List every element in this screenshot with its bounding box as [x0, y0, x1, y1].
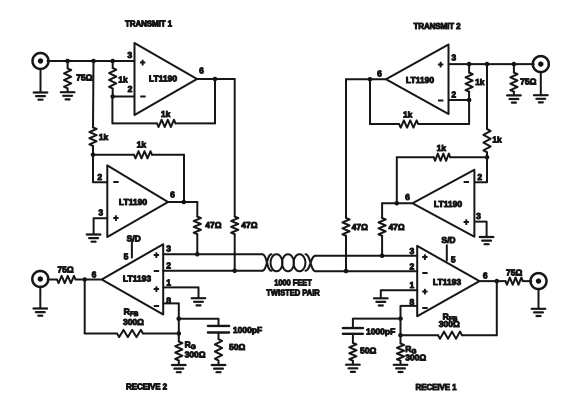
svg-text:47Ω: 47Ω	[241, 220, 257, 230]
wire (U3 feedback down)	[84, 280, 86, 334]
wire (U3 pin8 down)	[163, 303, 179, 333]
svg-text:300Ω: 300Ω	[185, 350, 206, 360]
wire (pin2 node to U4 -in)	[449, 99, 470, 101]
label LT1193 (U3)	[123, 274, 151, 284]
node dot (line B right tap)	[344, 269, 349, 274]
label LT1193 (U6)	[433, 277, 461, 287]
wire (U4 feedback down)	[369, 79, 371, 124]
node dot (U2 output)	[182, 200, 187, 205]
svg-text:1k: 1k	[99, 132, 109, 142]
ground (J4 shell)	[532, 289, 546, 316]
svg-text:50Ω: 50Ω	[360, 346, 376, 356]
minus sign (U3 pin8)	[154, 301, 159, 311]
ground (RG U6)	[394, 365, 408, 372]
op-amp U3 LT1193 (RECEIVE 2)	[102, 244, 164, 314]
svg-text:300Ω: 300Ω	[123, 317, 144, 327]
svg-text:1000 FEET: 1000 FEET	[274, 278, 312, 287]
wire (U3 output)	[85, 279, 102, 281]
label 1k (coupling right)	[492, 135, 502, 145]
svg-text:1: 1	[166, 277, 171, 287]
svg-text:1k: 1k	[161, 109, 171, 119]
resistor 1k (U4 +in to -in)	[466, 64, 473, 100]
minus sign (U4 -in)	[438, 95, 443, 105]
svg-text:1k: 1k	[475, 77, 485, 87]
node dot (U4 output)	[368, 77, 373, 82]
wire (feedback up to U4 pin2 node)	[468, 100, 470, 124]
svg-text:2: 2	[97, 172, 102, 182]
svg-text:2: 2	[451, 89, 456, 99]
wire (pin2 node down to U2 -in)	[93, 155, 107, 183]
label 1k (R3)	[161, 109, 171, 119]
twisted pair loop 1	[271, 254, 283, 271]
svg-text:TRANSMIT 1: TRANSMIT 1	[125, 19, 173, 28]
pin 1 label (U6)	[410, 280, 415, 290]
node dot (U1 pin 2 node)	[110, 94, 115, 99]
pin 6 label (U2)	[170, 190, 175, 200]
label 47Ω (RA)	[205, 220, 221, 230]
plus sign (U2 +in)	[113, 213, 118, 223]
label RFB (U3)	[124, 306, 139, 318]
node dot (1k R2b top)	[467, 62, 472, 67]
svg-text:5: 5	[124, 252, 129, 262]
svg-text:+: +	[422, 286, 427, 296]
svg-text:−: −	[422, 268, 427, 278]
wire (1000pF node to cap)	[179, 319, 219, 326]
node dot (1000pF node)	[177, 317, 182, 322]
ground (J1 shell)	[34, 69, 48, 100]
op-amp U4 LT1190 (TRANSMIT 2)	[386, 45, 449, 115]
label 300Ω (RFB U3)	[123, 317, 144, 327]
wire (U6 feedback down)	[496, 281, 498, 335]
pin 2 label (U1)	[128, 84, 133, 94]
label 1k (TX2 input)	[475, 77, 485, 87]
resistor RG 300Ω (U3 gain set)	[175, 334, 182, 365]
wire (line A left segment, U3 pin3)	[163, 253, 262, 255]
svg-text:RECEIVE 1: RECEIVE 1	[416, 383, 458, 392]
svg-text:3: 3	[166, 244, 171, 254]
svg-text:+: +	[464, 217, 469, 227]
wire (pin2 node down to U5 -in)	[474, 157, 487, 182]
BNC connector J4 (receive 1 output)	[531, 273, 547, 289]
wire (U6 pin1 to ground)	[381, 290, 417, 298]
twisted pair loop 2	[282, 254, 294, 271]
svg-text:1k: 1k	[137, 140, 147, 150]
resistor RFB 300Ω (U6 feedback)	[401, 332, 497, 339]
node dot (U5 -in node)	[485, 155, 490, 160]
label 75Ω (TX2)	[520, 76, 536, 86]
svg-text:2: 2	[128, 84, 133, 94]
svg-text:47Ω: 47Ω	[388, 222, 404, 232]
node dot (line A left tap)	[232, 269, 237, 274]
svg-text:+: +	[154, 284, 159, 294]
node dot (U5 output)	[395, 201, 400, 206]
minus sign (U3 pin2)	[154, 266, 159, 276]
ground (J3 shell)	[534, 72, 548, 103]
svg-text:6: 6	[377, 69, 382, 79]
svg-text:LT1193: LT1193	[433, 277, 461, 287]
label 47Ω (RB)	[241, 220, 257, 230]
wire (U1 output to 47Ω column)	[197, 78, 235, 80]
svg-text:+: +	[422, 252, 427, 262]
pin 6 label (U3)	[92, 269, 97, 279]
label LT1190 (U2)	[119, 197, 147, 207]
pin 2 label (U3)	[166, 260, 171, 270]
label RECEIVE 2	[126, 383, 168, 392]
resistor 1k R2 (U1 +in to -in)	[109, 61, 116, 97]
svg-text:LT1190: LT1190	[119, 197, 147, 207]
svg-text:3: 3	[476, 211, 481, 221]
node dot (RG node)	[177, 331, 182, 336]
resistor 47Ω RD (U4 out to line B)	[342, 79, 349, 271]
wire (pin2 node to U1 -in)	[113, 96, 135, 98]
label 1000 FEET	[274, 278, 312, 287]
pin 3 label (U3)	[166, 244, 171, 254]
node dot (1k column top right)	[485, 62, 490, 67]
plus sign (U1 +in)	[140, 57, 145, 67]
plus sign (U5 +in)	[464, 217, 469, 227]
svg-text:1k: 1k	[118, 74, 128, 84]
ground (U3 pin1)	[192, 298, 206, 305]
svg-text:−: −	[113, 177, 118, 187]
wire (U2 output)	[168, 201, 197, 203]
node dot (1000pF node right)	[398, 316, 403, 321]
label TRANSMIT 1	[125, 19, 173, 28]
wire (U5 feedback left end down)	[396, 157, 398, 203]
node dot (75Ω top)	[65, 59, 70, 64]
node dot (line B left tap)	[195, 252, 200, 257]
pin 1 label (U3)	[166, 277, 171, 287]
label 75Ω (RX1)	[506, 267, 522, 277]
minus sign (U2 -in)	[113, 177, 118, 187]
capacitor 1000pF (RX2 filter)	[208, 326, 229, 333]
label 1k (R4)	[137, 140, 147, 150]
label 1k (U5 fb)	[437, 143, 447, 153]
BNC connector J1 (transmit 1 input)	[33, 53, 49, 69]
ground (RG U3)	[172, 365, 186, 372]
svg-text:6: 6	[405, 192, 410, 202]
label 1k (R2)	[118, 74, 128, 84]
svg-text:−: −	[140, 91, 145, 101]
resistor 1k R4 (U2 feedback)	[93, 151, 184, 158]
pin 2 label (U6)	[410, 262, 415, 272]
svg-text:TRANSMIT 2: TRANSMIT 2	[413, 22, 461, 31]
pin 5 lead (U3 S/D)	[131, 243, 133, 258]
svg-text:300Ω: 300Ω	[405, 352, 426, 362]
node dot (U3 output)	[82, 277, 87, 282]
resistor 50Ω (RX2 filter)	[215, 333, 222, 365]
pin 6 label (U5)	[405, 192, 410, 202]
svg-text:S/D: S/D	[441, 235, 455, 245]
resistor 1k R3 (U1 feedback)	[112, 120, 215, 127]
wire (U6 output)	[480, 280, 497, 282]
resistor 1k (U5 feedback)	[397, 154, 487, 161]
label LT1190 (U5)	[434, 199, 462, 209]
pin 3 label (U5)	[476, 211, 481, 221]
pin 3 label (U1)	[127, 50, 132, 60]
label 300Ω (RG U6)	[405, 352, 426, 362]
label 75Ω (TX1)	[76, 73, 92, 83]
svg-text:2: 2	[166, 260, 171, 270]
wire (line A right segment)	[316, 255, 418, 257]
pin 3 label (U6)	[410, 246, 415, 256]
svg-text:6: 6	[199, 65, 204, 75]
pin 3 label (U4)	[451, 53, 456, 63]
node dot (1k divider column top)	[91, 59, 96, 64]
label 1000pF (RX1)	[366, 326, 395, 336]
wire (U1 feedback down)	[214, 79, 216, 123]
ground (75Ω TX2)	[507, 95, 521, 102]
wire (U5 output)	[382, 202, 412, 204]
label RG (U3)	[185, 339, 196, 351]
wire (J1 to U1 pin 3 node)	[48, 60, 135, 62]
ground (U5 +in)	[480, 237, 494, 244]
resistor 1k (stage coupling right)	[483, 64, 490, 157]
resistor 47Ω RC (U5 out to line A)	[379, 203, 386, 256]
svg-text:LT1190: LT1190	[434, 199, 462, 209]
node dot (U1 output)	[213, 77, 218, 82]
resistor 1k (U4 feedback)	[370, 120, 469, 127]
svg-text:1: 1	[410, 280, 415, 290]
capacitor 1000pF (RX1 filter)	[343, 328, 363, 334]
label LT1190 (U4)	[406, 75, 434, 85]
pin 6 label (U4)	[377, 69, 382, 79]
op-amp U1 LT1190 (TRANSMIT 1)	[135, 43, 198, 115]
label 1k (U4 fb)	[403, 110, 413, 120]
node dot (U4 pin 2 node)	[467, 98, 472, 103]
svg-text:2: 2	[410, 262, 415, 272]
wire (U3 pin1 to ground)	[163, 287, 198, 297]
minus sign (U6 pin8)	[422, 303, 427, 313]
svg-text:S/D: S/D	[127, 233, 141, 243]
label S/D (U3)	[127, 233, 141, 243]
svg-text:LT1193: LT1193	[123, 274, 151, 284]
wire (line B left segment, U3 pin2)	[163, 270, 262, 272]
svg-text:2: 2	[477, 172, 482, 182]
svg-text:1000pF: 1000pF	[366, 326, 395, 336]
wire (1000pF node to cap right)	[353, 319, 401, 328]
svg-text:6: 6	[483, 271, 488, 281]
label LT1190 (U1)	[149, 74, 177, 84]
pin 8 label (U3)	[166, 295, 171, 305]
pin 6 label (U1)	[199, 65, 204, 75]
op-amp U5 LT1190 (inverter right)	[413, 170, 475, 237]
label 47Ω (RD)	[352, 222, 368, 232]
resistor 50Ω (RX1 filter)	[349, 334, 356, 364]
svg-text:75Ω: 75Ω	[506, 267, 522, 277]
pin 5 label (U3)	[124, 252, 129, 262]
svg-text:1k: 1k	[437, 143, 447, 153]
label 300Ω (RFB U6)	[439, 319, 460, 329]
svg-text:47Ω: 47Ω	[352, 222, 368, 232]
ground (U6 pin1)	[374, 298, 388, 305]
label RECEIVE 1	[416, 383, 458, 392]
BNC connector J2 (receive 2 output)	[32, 271, 48, 287]
resistor RFB 300Ω (U3 feedback)	[85, 330, 179, 337]
wire (U2 +in to ground)	[94, 218, 108, 234]
svg-text:6: 6	[170, 190, 175, 200]
svg-text:300Ω: 300Ω	[439, 319, 460, 329]
label 75Ω (RX2)	[57, 264, 73, 274]
node dot (1k R2 top)	[110, 59, 115, 64]
svg-text:+: +	[113, 213, 118, 223]
wire (line B right segment)	[316, 270, 418, 272]
svg-text:50Ω: 50Ω	[229, 342, 245, 352]
op-amp U6 LT1193 (RECEIVE 1)	[417, 246, 479, 316]
ground (U2 +in)	[87, 235, 101, 242]
svg-text:1000pF: 1000pF	[233, 325, 262, 335]
label 50Ω (RX2)	[229, 342, 245, 352]
svg-text:3: 3	[127, 50, 132, 60]
plus sign (U4 +in)	[438, 59, 443, 69]
pin 3 label (U2)	[98, 208, 103, 218]
svg-text:75Ω: 75Ω	[57, 264, 73, 274]
svg-text:+: +	[154, 250, 159, 260]
svg-text:75Ω: 75Ω	[76, 73, 92, 83]
label RG (U6)	[405, 344, 416, 356]
svg-text:6: 6	[92, 269, 97, 279]
ground (50Ω RX1)	[346, 365, 360, 372]
label TWISTED PAIR	[266, 288, 320, 297]
svg-text:−: −	[422, 303, 427, 313]
ground (J2 shell)	[34, 287, 48, 316]
plus sign (U3 pin3)	[154, 250, 159, 260]
svg-text:+: +	[140, 57, 145, 67]
plus sign (U6 pin1)	[422, 286, 427, 296]
resistor 1k R1 (stage coupling)	[89, 61, 96, 155]
resistor 75Ω (RX1 back termination)	[497, 278, 531, 285]
twisted pair crossover right	[306, 254, 316, 271]
label TRANSMIT 2	[413, 22, 461, 31]
label 47Ω (RC)	[388, 222, 404, 232]
plus sign (U6 pin3)	[422, 252, 427, 262]
resistor 75Ω (TX2 input termination)	[510, 64, 517, 95]
svg-text:LT1190: LT1190	[406, 75, 434, 85]
label RFB (U6)	[443, 311, 458, 323]
svg-text:TWISTED PAIR: TWISTED PAIR	[266, 288, 320, 297]
svg-text:3: 3	[451, 53, 456, 63]
ground (75Ω TX1)	[61, 92, 75, 99]
svg-text:47Ω: 47Ω	[205, 220, 221, 230]
svg-text:1k: 1k	[492, 135, 502, 145]
node dot (U6 output)	[495, 279, 500, 284]
node dot (line A right tap)	[380, 253, 385, 258]
label 50Ω (RX1)	[360, 346, 376, 356]
svg-text:−: −	[464, 177, 469, 187]
resistor 47Ω RB (U1 out to line A)	[231, 79, 238, 271]
node dot (75Ω TX2 top)	[512, 62, 517, 67]
wire (J3 to U4 pin 3 node)	[449, 63, 534, 65]
wire (feedback right end down to U2 output)	[183, 155, 185, 202]
label 1k (R1)	[99, 132, 109, 142]
pin 5 label (U6)	[451, 254, 456, 264]
wire (U5 +in to ground)	[474, 222, 486, 237]
node dot (U2 -in node)	[91, 153, 96, 158]
svg-text:LT1190: LT1190	[149, 74, 177, 84]
resistor 75Ω (RX2 back termination)	[48, 276, 85, 283]
ground (50Ω RX2)	[212, 365, 226, 372]
pin 2 label (U4)	[451, 89, 456, 99]
wire (feedback up to pin2 node)	[111, 97, 113, 124]
wire (U6 pin8 down)	[401, 306, 418, 335]
node dot (RG node right)	[398, 333, 403, 338]
plus sign (U3 pin1)	[154, 284, 159, 294]
svg-text:+: +	[438, 59, 443, 69]
svg-text:RECEIVE 2: RECEIVE 2	[126, 383, 168, 392]
resistor RG 300Ω (U6 gain set)	[397, 335, 404, 364]
minus sign (U6 pin2)	[422, 268, 427, 278]
svg-text:1k: 1k	[403, 110, 413, 120]
minus sign (U5 -in)	[464, 177, 469, 187]
minus sign (U1 -in)	[140, 91, 145, 101]
svg-text:5: 5	[451, 254, 456, 264]
pin 2 label (U2)	[97, 172, 102, 182]
svg-text:3: 3	[98, 208, 103, 218]
pin 5 lead (U6 S/D)	[446, 245, 448, 260]
op-amp U2 LT1190 (inverter)	[107, 165, 168, 237]
pin 6 label (U6)	[483, 271, 488, 281]
label 300Ω (RG U3)	[185, 350, 206, 360]
svg-text:−: −	[438, 95, 443, 105]
svg-text:3: 3	[410, 246, 415, 256]
label 1000pF (RX2)	[233, 325, 262, 335]
svg-text:−: −	[154, 301, 159, 311]
svg-text:75Ω: 75Ω	[520, 76, 536, 86]
wire (U4 output to 47Ω column)	[346, 78, 386, 80]
pin 8 label (U6)	[410, 297, 415, 307]
twisted pair crossover left	[262, 254, 272, 271]
resistor 75Ω (TX1 input termination)	[64, 61, 71, 92]
BNC connector J3 (transmit 2 input)	[533, 56, 549, 72]
svg-text:−: −	[154, 266, 159, 276]
label S/D (U6)	[441, 235, 455, 245]
twisted pair loop 3	[294, 254, 306, 271]
resistor 47Ω RA (U2 out to line B)	[194, 202, 201, 254]
pin 2 label (U5)	[477, 172, 482, 182]
